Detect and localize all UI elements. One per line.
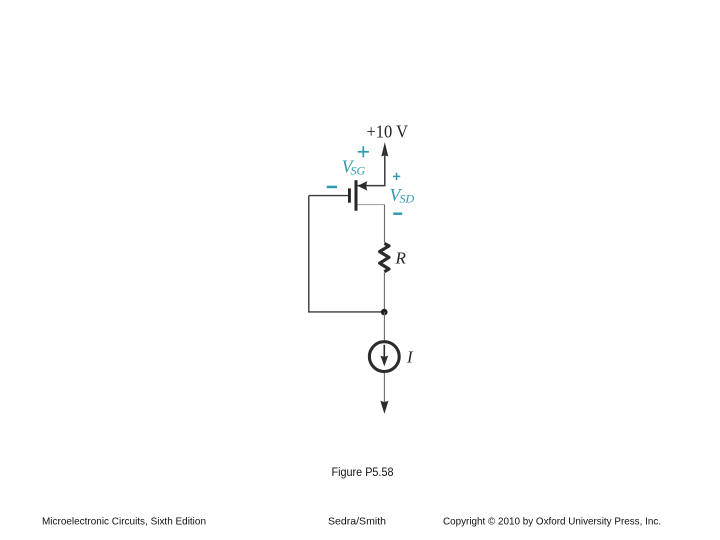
power rail arrowhead (up to +10 V) bbox=[381, 142, 388, 156]
svg-text:VSD: VSD bbox=[390, 185, 415, 206]
plus sign of VSG bbox=[358, 146, 369, 157]
transistor Q1 (PMOS) gate bar bbox=[348, 188, 351, 202]
wire: source lead up to +10 V rail bbox=[358, 150, 385, 186]
wire: current source to negative rail bbox=[383, 373, 385, 402]
wire: drain down to resistor bbox=[384, 205, 386, 243]
wire: resistor to junction bbox=[383, 273, 385, 312]
svg-text:VSG: VSG bbox=[342, 156, 366, 177]
wire: junction to current source bbox=[383, 312, 385, 341]
wire: gate lead bbox=[309, 195, 348, 197]
svg-text:Sedra/Smith: Sedra/Smith bbox=[328, 516, 386, 528]
plus sign of VSD bbox=[393, 173, 400, 180]
wire: drain lead (light) bbox=[358, 204, 385, 206]
wire: left feedback loop (gate to bottom node) bbox=[309, 196, 384, 312]
junction node dot bbox=[381, 309, 388, 316]
current source inner arrow bbox=[383, 345, 385, 360]
svg-text:Microelectronic Circuits, Sixt: Microelectronic Circuits, Sixth Edition bbox=[42, 516, 206, 528]
resistor R zigzag bbox=[380, 243, 389, 271]
svg-text:R: R bbox=[395, 248, 407, 267]
svg-text:I: I bbox=[406, 348, 414, 367]
svg-text:Figure P5.58: Figure P5.58 bbox=[332, 467, 394, 479]
svg-text:+10 V: +10 V bbox=[367, 122, 409, 142]
transistor Q1 (PMOS) source arrowhead bbox=[358, 181, 368, 191]
negative rail arrowhead (down) bbox=[380, 401, 388, 414]
svg-text:Copyright © 2010 by Oxford Uni: Copyright © 2010 by Oxford University Pr… bbox=[443, 516, 661, 528]
transistor Q1 (PMOS) channel bar bbox=[355, 180, 358, 211]
current source I circle bbox=[369, 342, 399, 372]
minus sign of VSG bbox=[327, 186, 337, 189]
minus sign of VSD bbox=[393, 213, 402, 215]
